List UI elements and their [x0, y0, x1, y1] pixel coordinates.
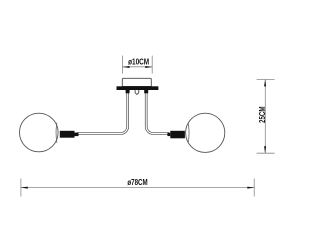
- dim ⌀10CM left extension line: [122, 56, 124, 74]
- dim 25CM bottom arrow: [264, 146, 266, 153]
- right globe neck arc: [187, 123, 190, 143]
- left globe neck arc: [55, 123, 58, 143]
- dim 25CM top extension line: [257, 79, 275, 81]
- dim ⌀78CM right arrow: [247, 187, 254, 189]
- right arm tube (vertical rod, elbow, horizontal tube): [146, 92, 169, 134]
- right socket nub: [167, 133, 170, 136]
- dim ⌀78CM left extension line: [20, 179, 22, 197]
- dim 25CM top arrow: [264, 80, 266, 87]
- canopy cup: [122, 78, 151, 86]
- left socket nub: [75, 133, 79, 137]
- center hook loop: [135, 90, 139, 95]
- left socket body: [60, 131, 75, 138]
- dim 25CM bottom extension line: [257, 152, 275, 154]
- svg-text:25CM: 25CM: [258, 106, 267, 123]
- svg-text:ø10CM: ø10CM: [128, 57, 149, 66]
- right globe bulb: [186, 113, 225, 152]
- dim ⌀78CM dimension line: [21, 186, 254, 188]
- right socket body: [170, 131, 185, 139]
- dim ⌀10CM left arrow: [123, 66, 130, 68]
- dim ⌀78CM left arrow: [21, 187, 28, 189]
- dim ⌀10CM right arrow: [145, 66, 152, 68]
- right rod attachment nut: [144, 90, 148, 93]
- left arm tube (vertical rod, elbow, horizontal tube): [77, 92, 128, 134]
- dim ⌀78CM right extension line: [253, 179, 255, 197]
- dim 25CM dimension line: [264, 80, 266, 154]
- left globe bulb: [20, 113, 59, 152]
- dim ⌀10CM right extension line: [151, 56, 153, 74]
- dim ⌀10CM dimension line: [123, 66, 153, 68]
- ceiling mounting bar: [117, 86, 159, 90]
- svg-text:ø78CM: ø78CM: [127, 178, 148, 187]
- left rod attachment nut: [126, 90, 130, 93]
